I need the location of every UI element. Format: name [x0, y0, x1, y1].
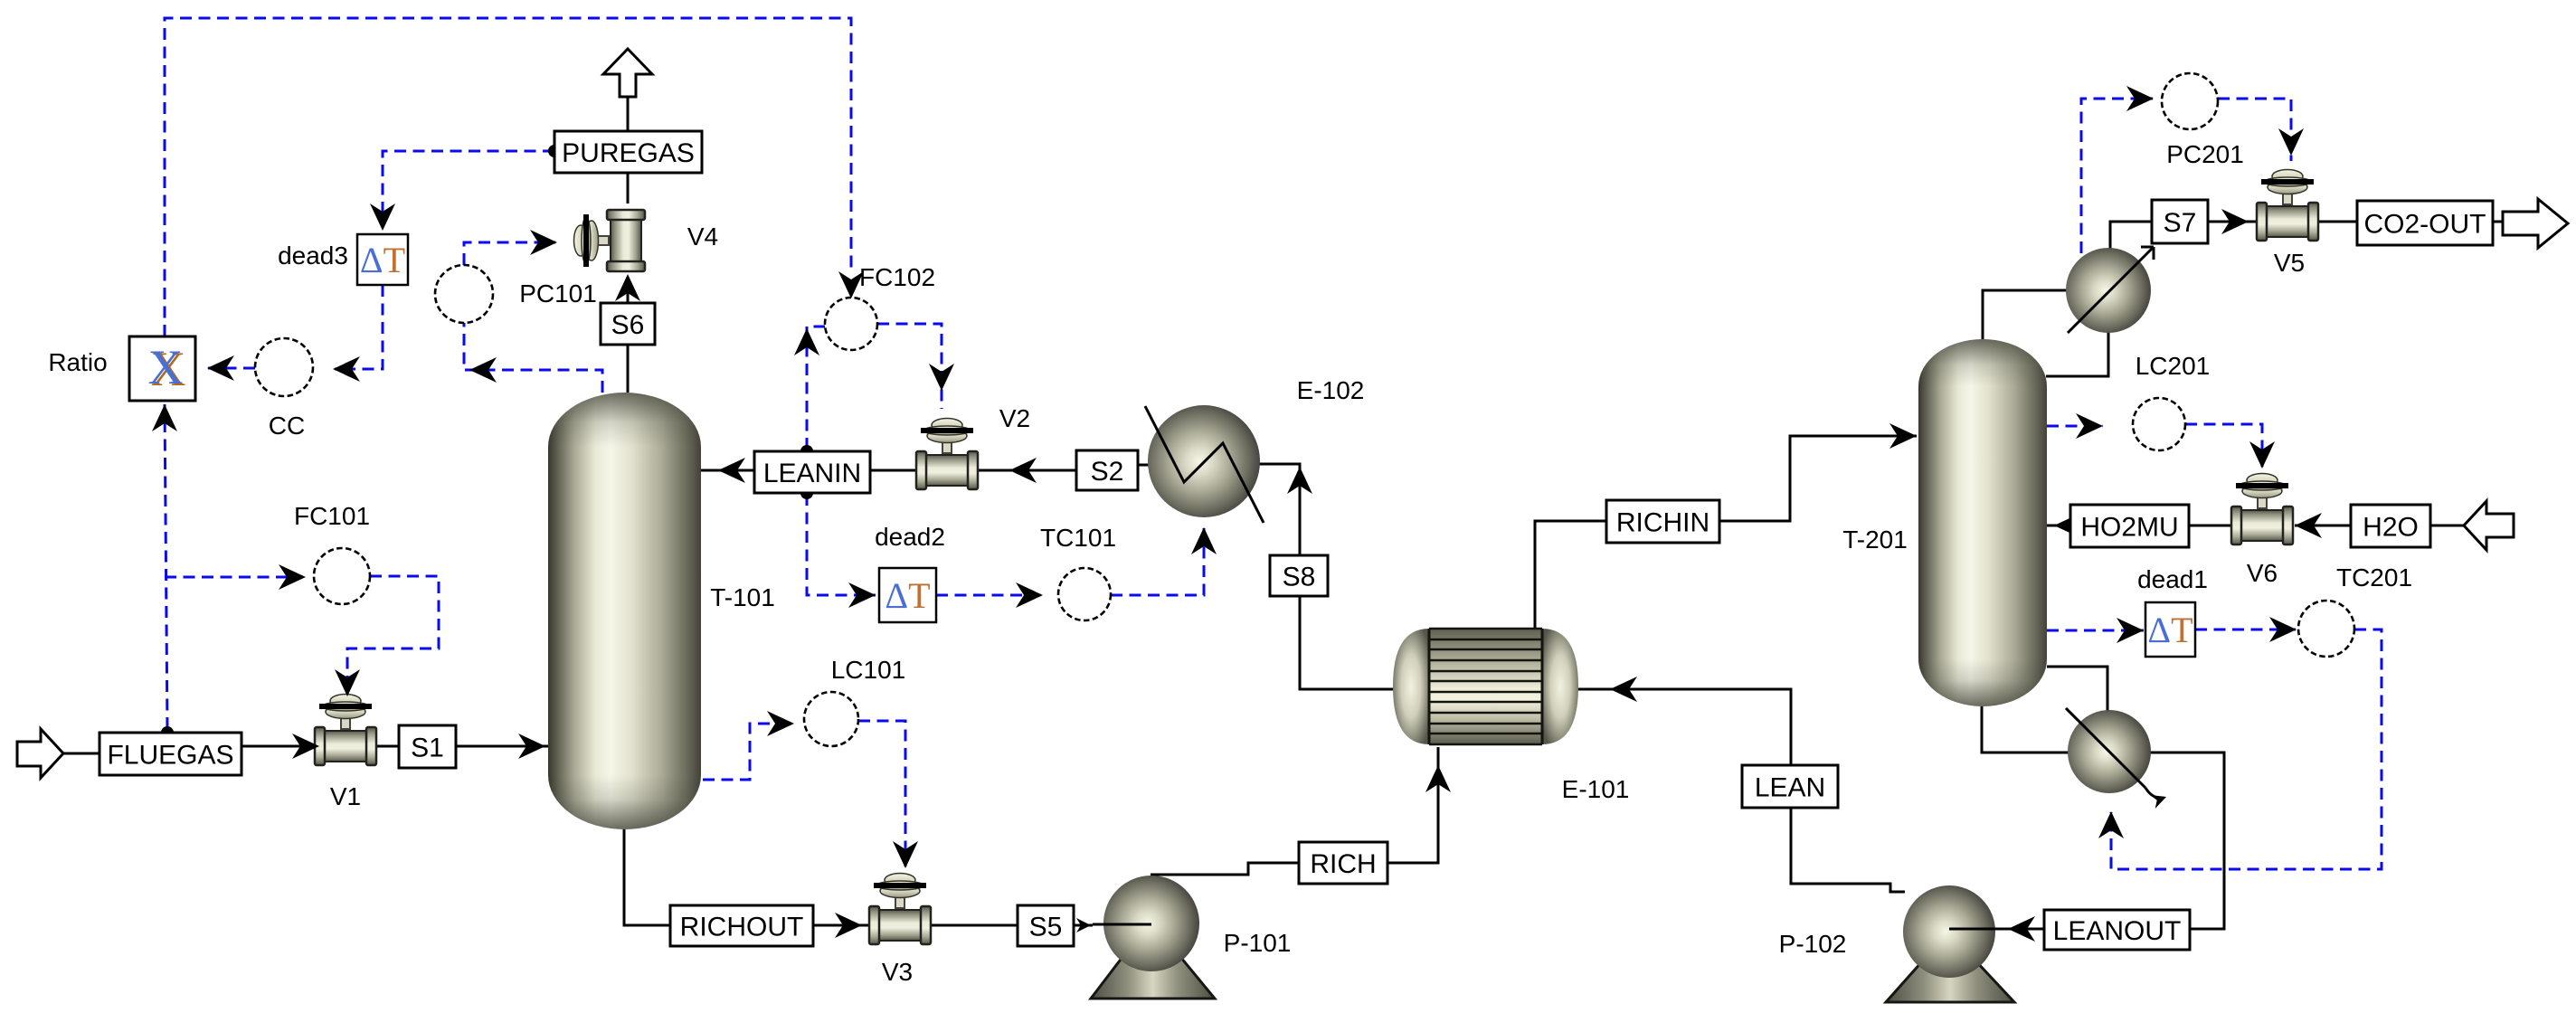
arrow into FC102 SP	[838, 271, 864, 298]
arrow into LC201	[2076, 413, 2103, 439]
arrow up to FC102 PV	[794, 328, 819, 355]
wire stream reboiler to LEANOUT	[2149, 753, 2224, 929]
label Ratio	[48, 348, 107, 376]
arrow stream FLUEGAS to V1	[292, 734, 319, 759]
wire stream valve V3 to S5	[930, 924, 1018, 927]
wire stream HO2MU into column T-201	[2047, 525, 2070, 527]
wire stream S7 to valve V5	[2208, 221, 2258, 223]
wire stream column T-201 bottoms to reboiler	[1982, 706, 2069, 753]
label E-101	[1562, 775, 1630, 803]
feed arrow into FLUEGAS	[17, 729, 63, 778]
svg-text:ΔT: ΔT	[885, 575, 930, 616]
svg-text:V5: V5	[2274, 249, 2305, 277]
svg-text:FC101: FC101	[294, 502, 370, 530]
stream label LEAN	[1742, 765, 1838, 808]
wire stream S1 to column T-101	[456, 745, 548, 748]
wire signal branch FLUEGAS measurement to FC101	[165, 576, 302, 579]
label dead1	[2137, 565, 2208, 593]
wire stream valve V2 to LEANIN	[870, 469, 918, 472]
svg-text:CO2-OUT: CO2-OUT	[2364, 209, 2486, 239]
wire signal FLUEGAS flow measurement up to Ratio-X input	[165, 404, 167, 729]
wire signal FC101 output to valve V1 actuator	[347, 576, 439, 691]
wire signal FC102 output to valve V2 actuator	[877, 324, 942, 409]
node LEANIN temperature tap	[800, 487, 813, 499]
wire signal column T-101 pressure to PC101	[464, 323, 602, 393]
svg-text:ΔT: ΔT	[360, 240, 405, 280]
multiplier block Ratio X	[129, 336, 195, 401]
svg-text:ΔT: ΔT	[2147, 610, 2192, 650]
controller FC101	[314, 548, 370, 604]
controller LC101	[804, 692, 858, 746]
stream label HO2MU	[2070, 505, 2189, 547]
wire stream condenser reflux to column T-201	[2046, 331, 2108, 376]
wire stream column T-201 draw to reboiler top	[2047, 667, 2107, 712]
stream label S8	[1270, 555, 1328, 596]
svg-text:LC201: LC201	[2136, 352, 2211, 380]
stream label PUREGAS	[554, 131, 702, 173]
label dead3	[278, 241, 348, 270]
arrow into Ratio-X right	[207, 355, 234, 381]
arrow stream S8 riser up	[1287, 467, 1312, 494]
product arrow CO2-OUT	[2503, 199, 2568, 248]
stream label RICHOUT	[670, 905, 813, 946]
wire signal LEANIN temperature to dead2	[807, 494, 876, 595]
deadtime block dead1	[2145, 602, 2195, 657]
svg-text:S5: S5	[1029, 912, 1063, 942]
svg-text:PC201: PC201	[2166, 140, 2244, 168]
svg-text:S8: S8	[1283, 562, 1316, 592]
label T-201	[1842, 525, 1908, 554]
label P-102	[1779, 930, 1847, 958]
wire signal LC101 output to valve V3 actuator	[858, 721, 905, 866]
svg-text:S2: S2	[1091, 457, 1124, 487]
wire stream RICHIN to column T-201	[1719, 436, 1917, 521]
stream label S7	[2152, 200, 2208, 243]
wire stream H2O to valve V6	[2295, 525, 2351, 527]
controller TC201	[2298, 601, 2354, 657]
label V6	[2247, 559, 2278, 587]
wire signal Ratio-X output to top rail to FC102 SP	[165, 18, 851, 336]
arrow stream H2O to V6	[2295, 513, 2322, 538]
wire signal dead1 output to TC201	[2195, 629, 2296, 631]
stream label S2	[1076, 450, 1138, 490]
wire stream condenser to S7	[2110, 222, 2152, 250]
arrow stream V2 to LEANIN	[1009, 458, 1037, 483]
vent arrow PUREGAS	[603, 49, 652, 97]
wire stream LEANOUT into pump P-102	[2010, 928, 2044, 931]
wire signal column T-201 temperature to dead1	[2047, 630, 2144, 632]
arrow into Ratio-X bottom	[152, 404, 177, 431]
stream label S6	[601, 303, 655, 345]
arrow into PC201	[2126, 86, 2154, 111]
arrow stream S1 into T-101	[518, 734, 545, 759]
arrow into reboiler duty	[2098, 811, 2124, 838]
wire stream CO2-OUT to product arrow	[2493, 221, 2514, 223]
label dead2	[875, 523, 945, 551]
svg-text:PC101: PC101	[519, 279, 597, 308]
stream label S5	[1018, 905, 1074, 946]
wire signal PUREGAS measurement to dead3	[383, 151, 554, 228]
arrow stream S7 to V5	[2221, 209, 2249, 234]
controller CC	[255, 338, 313, 396]
arrow into V6 actuator	[2249, 441, 2275, 469]
svg-text:RICHOUT: RICHOUT	[680, 912, 804, 942]
wire stream LEANOUT suction into P-102	[1949, 928, 2010, 931]
pump P-101	[1091, 876, 1215, 999]
wire signal dead3 output to CC	[335, 285, 383, 369]
svg-text:FC102: FC102	[859, 263, 935, 291]
wire stream PUREGAS to vent arrow	[627, 97, 630, 131]
wire signal TC101 output to exchanger E-102 duty	[1111, 528, 1204, 595]
arrow into dead1	[2117, 618, 2144, 643]
exchanger E-101 shell-and-tube	[1393, 629, 1578, 744]
wire stream FLUEGAS to valve V1	[241, 745, 317, 748]
controller FC102	[825, 298, 877, 350]
wire stream S5 suction into P-101	[1093, 923, 1151, 926]
wire stream exchanger E-101 to RICHIN	[1535, 521, 1606, 629]
arrow into V4 actuator	[530, 230, 557, 255]
arrow into V1 actuator	[335, 669, 360, 696]
svg-text:V1: V1	[330, 782, 361, 810]
svg-text:CC: CC	[269, 412, 305, 440]
wire signal column T-101 level to LC101	[703, 724, 794, 780]
wire signal CC output to Ratio-X	[208, 367, 255, 370]
label TC101	[1040, 524, 1116, 552]
label PC101	[519, 279, 597, 308]
wire stream valve V6 to HO2MU	[2189, 525, 2233, 527]
svg-text:E-101: E-101	[1562, 775, 1630, 803]
label V2	[999, 404, 1030, 432]
arrow stream HO2MU into T-201	[2054, 513, 2081, 538]
wire signal LEANIN flow measurement to FC102	[807, 327, 825, 450]
arrow stream S6 up to V4	[615, 274, 640, 301]
svg-text:T-201: T-201	[1842, 525, 1908, 554]
arrow into dead3	[370, 204, 395, 231]
svg-text:dead1: dead1	[2137, 565, 2208, 593]
label PC201	[2166, 140, 2244, 168]
arrow stream into LEANIN	[718, 458, 745, 483]
wire stream pump P-101 discharge to RICH	[1151, 863, 1299, 875]
pump P-102	[1886, 885, 2014, 1002]
wire signal PC201 output to valve V5 actuator	[2218, 99, 2291, 161]
stream label LEANIN	[754, 451, 870, 493]
wire stream S6 to valve V4	[627, 278, 630, 304]
valve V4 (vertical, actuator left)	[574, 210, 646, 271]
arrow stream RICH into E-101	[1425, 765, 1451, 792]
svg-text:T-101: T-101	[710, 583, 775, 611]
label V5	[2274, 249, 2305, 277]
svg-text:S1: S1	[411, 733, 444, 762]
wire stream S2 to exchanger E-102	[1138, 464, 1150, 467]
arrow stream LEAN into E-101	[1610, 677, 1637, 702]
arrow into LC101	[767, 711, 794, 736]
svg-text:FLUEGAS: FLUEGAS	[107, 740, 233, 770]
svg-text:LC101: LC101	[831, 656, 906, 684]
wire signal PC101 output to valve V4 actuator	[464, 242, 555, 265]
svg-text:H2O: H2O	[2363, 512, 2419, 542]
valve V1	[315, 695, 376, 766]
arrow into TC201	[2269, 617, 2297, 642]
svg-text:LEANOUT: LEANOUT	[2053, 916, 2182, 946]
valve V3	[869, 874, 931, 945]
stream label LEANOUT	[2044, 910, 2190, 950]
wire stream S8 to exchanger E-101	[1300, 596, 1393, 689]
wire signal TC201 output to reboiler duty	[2111, 630, 2382, 869]
condenser E-201 on T-201 overhead	[2066, 247, 2154, 333]
wire signal dead2 output to TC101	[936, 594, 1042, 597]
wire stream feed arrow to FLUEGAS	[63, 753, 99, 755]
svg-text:dead2: dead2	[875, 523, 945, 551]
exchanger E-102 cooler	[1145, 405, 1264, 523]
wire stream S5 into pump P-101	[1074, 924, 1093, 927]
controller PC201	[2162, 73, 2218, 129]
wire stream H2O arrow to H2O label	[2430, 525, 2464, 527]
arrow stream S5 into P-101	[1076, 918, 1091, 933]
valve V6	[2231, 474, 2293, 545]
svg-text:X: X	[148, 340, 184, 394]
deadtime block dead3	[357, 234, 408, 285]
svg-text:V6: V6	[2247, 559, 2278, 587]
wire stream exchanger E-102 to S8 riser	[1259, 464, 1300, 555]
svg-text:Ratio: Ratio	[48, 348, 107, 376]
wire stream column T-201 overhead to condenser	[1983, 290, 2068, 341]
arrow stream RICHIN into T-201	[1889, 423, 1917, 449]
controller PC101	[435, 265, 493, 323]
svg-text:LEANIN: LEANIN	[763, 459, 861, 488]
arrow into TC101	[1016, 582, 1043, 608]
arrow into V5 actuator	[2278, 128, 2304, 156]
stream label FLUEGAS	[99, 733, 241, 775]
wire stream valve V5 to CO2-OUT	[2318, 221, 2357, 223]
label FC102	[859, 263, 935, 291]
stream label S1	[399, 725, 456, 768]
column T-201 stripper	[1918, 339, 2047, 706]
stream label CO2-OUT	[2357, 201, 2493, 245]
wire stream valve V1 to S1	[374, 745, 399, 748]
column T-101 absorber	[548, 393, 701, 829]
stream label RICHIN	[1606, 500, 1719, 543]
arrow stream LEANOUT into P-102	[2008, 916, 2035, 942]
label FC101	[294, 502, 370, 530]
node PUREGAS measurement tap	[548, 145, 561, 157]
arrow FC101 input	[279, 564, 306, 590]
valve V2	[916, 419, 978, 490]
svg-text:PUREGAS: PUREGAS	[562, 138, 695, 168]
stream label RICH	[1299, 842, 1387, 884]
svg-text:RICHIN: RICHIN	[1616, 507, 1709, 537]
arrow into PC101 from column	[469, 357, 497, 383]
wire signal condenser pressure to PC201	[2081, 99, 2153, 253]
svg-text:V2: V2	[999, 404, 1030, 432]
label TC201	[2336, 563, 2412, 592]
label CC	[269, 412, 305, 440]
svg-text:V3: V3	[882, 958, 913, 986]
controller TC101	[1058, 568, 1111, 620]
label V1	[330, 782, 361, 810]
label V4	[687, 222, 718, 251]
wire stream LEAN from pump P-102 to exchanger E-101	[1574, 689, 1905, 892]
wire stream RICHOUT to valve V3	[813, 924, 869, 927]
wire signal column T-201 level to LC201	[2047, 425, 2103, 428]
wire stream LEANIN into column T-101	[701, 469, 754, 472]
arrow into dead2	[848, 582, 876, 608]
deadtime block dead2	[879, 568, 936, 622]
arrow into V2 actuator	[929, 364, 954, 391]
svg-text:P-102: P-102	[1779, 930, 1847, 958]
node FLUEGAS measurement tap	[161, 726, 174, 739]
svg-text:E-102: E-102	[1297, 376, 1365, 404]
svg-text:TC201: TC201	[2336, 563, 2412, 592]
wire signal LC201 output to valve V6 actuator	[2185, 424, 2262, 467]
arrow stream RICHOUT to V3	[835, 913, 862, 938]
label T-101	[710, 583, 775, 611]
svg-text:S7: S7	[2164, 208, 2197, 238]
svg-text:RICH: RICH	[1310, 849, 1376, 879]
wire stream column T-101 bottoms to RICHOUT	[624, 829, 670, 925]
svg-text:V4: V4	[687, 222, 718, 251]
valve V5	[2257, 170, 2318, 241]
svg-text:TC101: TC101	[1040, 524, 1116, 552]
svg-text:S6: S6	[611, 310, 645, 340]
wire stream RICH to exchanger E-101	[1387, 747, 1438, 863]
svg-text:P-101: P-101	[1224, 929, 1292, 957]
label LC101	[831, 656, 906, 684]
arrow into V3 actuator	[893, 841, 918, 868]
reboiler E-202 on T-201 bottoms	[2066, 708, 2166, 809]
arrow into CC	[333, 356, 360, 382]
wire stream valve V4 to PUREGAS	[627, 173, 630, 204]
svg-text:HO2MU: HO2MU	[2080, 512, 2178, 542]
label E-102	[1297, 376, 1365, 404]
wire stream S2 to valve V2	[977, 469, 1076, 472]
stream label H2O	[2351, 505, 2430, 547]
controller LC201	[2133, 398, 2185, 450]
feed arrow H2O	[2464, 501, 2514, 550]
wire stream column T-101 top to S6	[627, 345, 630, 393]
label V3	[882, 958, 913, 986]
arrow into E-102 duty	[1191, 527, 1217, 554]
node LEANIN flow tap	[800, 445, 813, 458]
svg-text:LEAN: LEAN	[1755, 772, 1825, 802]
label LC201	[2136, 352, 2211, 380]
label P-101	[1224, 929, 1292, 957]
svg-text:dead3: dead3	[278, 241, 348, 270]
